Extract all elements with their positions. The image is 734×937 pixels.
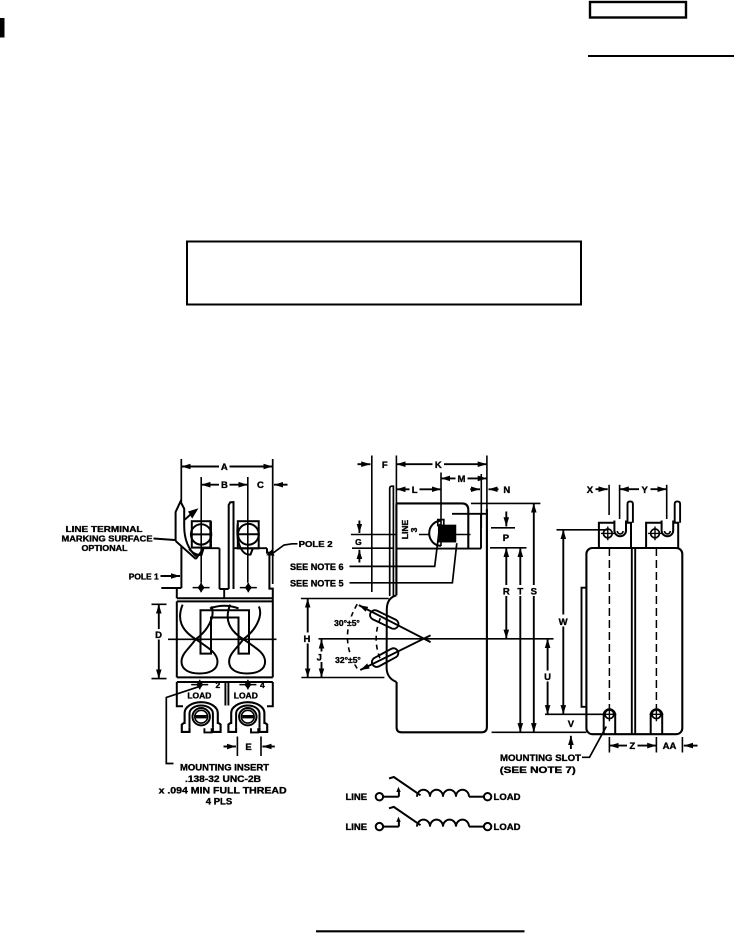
hourglass right	[228, 605, 265, 674]
dimension V outside arrow	[570, 736, 572, 749]
dimension A extension line left	[180, 459, 182, 502]
svg-text:V: V	[568, 719, 575, 730]
svg-text:3: 3	[409, 527, 419, 532]
load terminal 1	[484, 793, 491, 800]
svg-text:LOAD: LOAD	[234, 691, 258, 701]
svg-text:J: J	[317, 652, 322, 663]
dimension R	[505, 548, 507, 639]
body right profile	[267, 548, 273, 598]
wire	[469, 826, 484, 828]
load compartment divider	[225, 682, 228, 706]
svg-text:B: B	[221, 480, 228, 491]
svg-text:4 PLS: 4 PLS	[206, 797, 232, 808]
svg-text:LOAD: LOAD	[494, 792, 521, 803]
dimension D reference ticks	[152, 604, 167, 678]
barrier wall (side)	[390, 486, 394, 596]
toggle travel ray 30 deg	[359, 605, 431, 642]
upper section line 1	[177, 597, 273, 599]
dimension T	[519, 548, 521, 733]
svg-text:H: H	[303, 634, 310, 645]
screw terminal pole 1 box	[192, 521, 211, 547]
horizontal centerline	[168, 638, 277, 640]
side body top edge	[396, 503, 468, 548]
load screw pole 1	[193, 708, 210, 725]
32 deg label	[332, 654, 364, 665]
dimension S	[533, 503, 535, 732]
svg-text:T: T	[517, 587, 523, 598]
bottom mounting slot pole 1	[604, 709, 616, 734]
pole housing seam	[632, 548, 635, 734]
G lower reference line	[352, 547, 393, 549]
rear body outline	[586, 548, 682, 734]
X extension line	[608, 485, 610, 515]
svg-text:AA: AA	[663, 741, 677, 752]
pole 2 slot centerline (dashed)	[655, 548, 657, 709]
dimension N outside arrows	[470, 488, 480, 490]
upper diamond pole 2	[240, 583, 257, 592]
toggle pivot centerline	[319, 638, 554, 640]
dimension Y	[620, 488, 667, 490]
body left edge	[176, 588, 178, 598]
top insert hole pole 1	[603, 529, 612, 538]
W upper reference line	[557, 529, 609, 531]
AA extension line	[681, 737, 683, 753]
hourglass left	[180, 605, 217, 674]
upper section line 2	[177, 600, 273, 602]
load clamp pole 1 bottom tab	[204, 728, 211, 732]
pole 2 centerline	[247, 477, 249, 583]
handle swing arc inner	[376, 618, 380, 659]
circuit pole 1	[345, 777, 520, 803]
pole 1 centerline	[200, 477, 202, 583]
svg-text:2: 2	[216, 680, 221, 690]
handle bezel recess	[387, 595, 397, 682]
dimension K	[396, 463, 487, 465]
channel bottom	[220, 589, 229, 598]
Z extension lines	[609, 737, 656, 753]
wire	[469, 796, 484, 798]
H upper reference line	[301, 598, 389, 600]
top mounting tab pole 1 block	[599, 523, 631, 548]
load clamp pole 1 inner	[190, 706, 213, 728]
dimension B	[201, 484, 247, 486]
body face extension line	[395, 456, 397, 504]
handle tie staple	[201, 610, 250, 653]
central empty title box	[187, 242, 581, 305]
svg-text:.138-32 UNC-2B: .138-32 UNC-2B	[185, 774, 261, 785]
svg-text:LINE: LINE	[345, 792, 367, 803]
screw top tab	[438, 520, 444, 526]
svg-text:LOAD: LOAD	[494, 822, 521, 833]
side body ledge	[452, 514, 487, 549]
slot center reference line	[545, 713, 604, 715]
toggle section left edge	[176, 601, 178, 677]
svg-text:L: L	[412, 485, 418, 496]
H lower reference line	[301, 677, 384, 679]
mounting slot leader	[582, 727, 606, 758]
load clamp pole 1 outer	[185, 702, 218, 724]
dimension D	[158, 604, 160, 678]
dimension L	[396, 488, 441, 490]
svg-text:A: A	[221, 462, 228, 473]
load clamp pole 2 bottom tab	[251, 728, 258, 732]
30 deg label	[331, 617, 363, 628]
POLE 1 leader arrow	[161, 575, 181, 577]
load terminal diamond 2	[191, 680, 208, 690]
lower section line 2	[177, 681, 273, 683]
svg-text:U: U	[544, 672, 551, 683]
svg-text:MOUNTING SLOT: MOUNTING SLOT	[500, 753, 581, 764]
side body right edge	[486, 456, 488, 510]
load terminal diamond 4	[239, 680, 256, 690]
toggle handle OFF position	[372, 648, 398, 667]
line terminal 2	[376, 823, 383, 830]
dimension G arrows	[358, 521, 360, 534]
line terminal centerline	[440, 473, 442, 547]
screw terminal pole 1	[191, 524, 211, 544]
SEE NOTE 6 leader	[350, 524, 441, 567]
svg-text:MARKING SURFACE: MARKING SURFACE	[62, 534, 153, 544]
svg-text:32°±5°: 32°±5°	[335, 655, 361, 665]
pole 1 hook inner lip	[189, 548, 204, 555]
svg-text:POLE 2: POLE 2	[299, 539, 333, 549]
dimension N rib line	[480, 474, 482, 528]
dimension C outside arrow	[274, 484, 288, 486]
svg-text:D: D	[155, 630, 162, 641]
svg-text:SEE NOTE 6: SEE NOTE 6	[290, 562, 344, 573]
V notch left	[176, 541, 196, 559]
top mounting tab pole 2 block	[646, 523, 678, 548]
page corner black mark	[0, 18, 5, 38]
toggle travel ray 32 deg	[360, 635, 430, 670]
dimension W	[562, 530, 564, 715]
breaker blade 1	[389, 777, 421, 795]
dimension AA outside arrow	[684, 745, 698, 747]
svg-text:W: W	[559, 617, 568, 628]
svg-text:E: E	[245, 742, 251, 753]
svg-text:4: 4	[260, 680, 265, 690]
body left edge upper	[180, 546, 182, 588]
screw terminal pole 2 box	[238, 521, 259, 548]
channel left wall	[211, 521, 220, 589]
pole 2 hook curl	[237, 524, 252, 555]
dimension E extension lines	[237, 737, 261, 757]
svg-text:G: G	[355, 537, 362, 547]
dimension P outside arrow	[505, 512, 507, 527]
dimension F outside arrow	[358, 463, 371, 465]
left step line	[161, 587, 181, 589]
line terminal screw head (side)	[429, 521, 441, 546]
dimension J	[321, 639, 323, 677]
trip coil 2	[417, 820, 469, 827]
center barrier wall	[229, 502, 234, 589]
wire	[383, 826, 399, 828]
svg-text:30°±5°: 30°±5°	[334, 618, 360, 628]
svg-text:OPTIONAL: OPTIONAL	[82, 543, 128, 553]
load screw pole 2	[239, 708, 256, 725]
svg-text:POLE 1: POLE 1	[129, 572, 159, 582]
svg-text:LOAD: LOAD	[187, 691, 211, 701]
top mounting slot pole 2	[662, 521, 674, 537]
dimension Z	[609, 745, 656, 747]
toggle travel arc	[347, 604, 358, 671]
body top extension line	[471, 502, 540, 504]
svg-text:LINE TERMINAL: LINE TERMINAL	[66, 524, 143, 534]
top riser pole 1	[628, 501, 633, 522]
dimension U	[547, 639, 549, 715]
svg-text:MOUNTING INSERT: MOUNTING INSERT	[180, 763, 269, 774]
trip coil 1	[417, 790, 469, 797]
deck surface pole 1	[204, 547, 220, 549]
SEE NOTE 5 leader	[350, 543, 457, 583]
toggle section right edge	[272, 598, 274, 677]
lower section line 1	[177, 676, 273, 678]
P upper reference line	[491, 527, 515, 529]
svg-text:LINE: LINE	[345, 822, 367, 833]
middle bridge arc	[210, 606, 239, 609]
svg-text:SEE NOTE 5: SEE NOTE 5	[290, 578, 344, 589]
pole 1 hook terminal clamp	[176, 502, 197, 557]
svg-text:X: X	[587, 485, 594, 496]
breaker contact riser 2	[398, 820, 400, 826]
line terminal 1	[376, 793, 383, 800]
marking surface leader	[154, 539, 175, 541]
bottom baseline extension	[492, 731, 587, 733]
dimension X arrow	[596, 488, 608, 490]
screw terminal pole 2	[238, 524, 259, 545]
marking surface arrow	[188, 508, 199, 518]
breaker contact riser 1	[398, 791, 400, 797]
svg-text:S: S	[531, 587, 537, 598]
dimension F extension line (handle tip plane)	[371, 456, 373, 593]
load clamp pole 2 outer	[231, 702, 264, 724]
load clamp pole 2 inner	[236, 706, 259, 728]
top mounting slot pole 1	[614, 521, 626, 537]
svg-text:K: K	[435, 460, 442, 471]
dimension E arrows	[224, 746, 237, 748]
P lower reference line (deck extension)	[490, 547, 527, 549]
Y extension line left	[619, 485, 621, 519]
breaker blade 2	[389, 807, 421, 825]
svg-text:x .094 MIN FULL THREAD: x .094 MIN FULL THREAD	[159, 786, 287, 797]
dimension A extension line right (shared with C)	[272, 459, 274, 584]
svg-text:C: C	[257, 480, 264, 491]
upper diamond pole 1	[193, 583, 210, 592]
load terminal 2	[484, 823, 491, 830]
load compartment right wall	[267, 682, 273, 706]
Y extension line right	[666, 485, 668, 519]
circuit pole 2	[345, 807, 520, 833]
mounting insert leader	[166, 687, 198, 764]
POLE 2 leader	[272, 544, 298, 554]
svg-text:R: R	[503, 587, 510, 598]
dimension A	[181, 466, 272, 468]
top insert hole pole 2	[651, 529, 660, 538]
svg-text:Z: Z	[629, 741, 635, 752]
body face upper	[395, 503, 397, 595]
deck internal line	[397, 548, 481, 550]
line terminal center line segments	[351, 534, 471, 536]
pole 1 slot centerline (dashed)	[608, 548, 610, 709]
svg-text:F: F	[382, 460, 388, 471]
V notch right	[196, 548, 204, 559]
load clamp pole 2 feet	[228, 723, 267, 732]
dimension M	[441, 477, 487, 479]
toggle handle ON position	[370, 610, 398, 629]
top right rule line	[588, 55, 734, 57]
deck surface pole 2	[234, 547, 268, 549]
screw clamp block	[439, 526, 456, 542]
svg-text:N: N	[503, 485, 510, 496]
load compartment left wall	[177, 682, 183, 706]
wire	[383, 796, 399, 798]
top right empty table box	[590, 2, 686, 18]
dimension H	[307, 599, 309, 678]
rear side panel	[582, 588, 587, 707]
bottom mounting slot pole 2	[651, 709, 663, 734]
svg-text:(SEE NOTE 7): (SEE NOTE 7)	[500, 765, 576, 776]
top riser pole 2	[675, 501, 680, 522]
bottom center rule line	[316, 930, 525, 932]
svg-text:P: P	[503, 533, 510, 544]
load clamp pole 1 feet	[182, 723, 221, 732]
svg-text:Y: Y	[642, 485, 649, 496]
svg-text:M: M	[458, 474, 466, 485]
